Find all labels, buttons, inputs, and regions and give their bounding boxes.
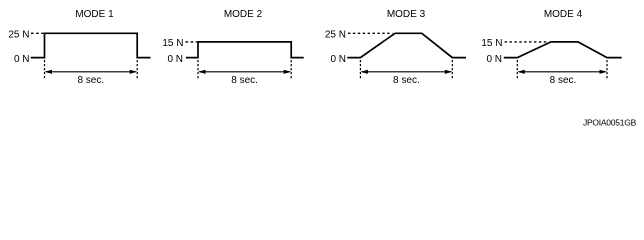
extension dashed line left (mode 3) xyxy=(359,60,361,78)
svg-text:8 sec.: 8 sec. xyxy=(231,75,258,86)
svg-text:0 N: 0 N xyxy=(14,54,30,65)
svg-text:15 N: 15 N xyxy=(481,38,502,49)
extension dashed line left (mode 4) xyxy=(516,60,518,78)
svg-text:25 N: 25 N xyxy=(325,29,346,40)
dimension line 8 sec (mode 3) xyxy=(362,71,451,73)
svg-text:8 sec.: 8 sec. xyxy=(550,75,577,86)
extension dashed line right (mode 2) xyxy=(290,60,292,78)
svg-text:JPOIA0051GB: JPOIA0051GB xyxy=(583,118,637,128)
svg-text:8 sec.: 8 sec. xyxy=(77,75,104,86)
dimension line 8 sec (mode 2) xyxy=(200,71,290,73)
leader dashes 15 N (mode 2) xyxy=(186,41,198,43)
svg-text:0 N: 0 N xyxy=(330,54,346,65)
extension dashed line right (mode 4) xyxy=(606,60,608,78)
svg-text:8 sec.: 8 sec. xyxy=(393,75,420,86)
extension dashed line left (mode 2) xyxy=(197,60,199,78)
extension dashed line right (mode 1) xyxy=(136,60,138,78)
svg-text:MODE 4: MODE 4 xyxy=(544,9,583,20)
waveform mode 4 trapezoid xyxy=(504,42,622,58)
dimension line 8 sec (mode 4) xyxy=(519,71,606,73)
extension dashed line left (mode 1) xyxy=(44,60,46,78)
dimension line 8 sec (mode 1) xyxy=(46,71,136,73)
svg-text:0 N: 0 N xyxy=(486,54,502,65)
leader dashes 25 N (mode 1) xyxy=(31,32,44,34)
svg-text:MODE 2: MODE 2 xyxy=(224,9,263,20)
leader dashed line 25 N (mode 3) xyxy=(348,32,393,34)
svg-text:15 N: 15 N xyxy=(162,38,183,49)
svg-text:MODE 1: MODE 1 xyxy=(75,9,114,20)
svg-text:25 N: 25 N xyxy=(8,29,29,40)
svg-text:MODE 3: MODE 3 xyxy=(387,9,426,20)
extension dashed line right (mode 3) xyxy=(451,60,453,78)
svg-text:0 N: 0 N xyxy=(167,54,183,65)
waveform mode 3 trapezoid xyxy=(347,33,466,57)
waveform mode 1 square pulse xyxy=(31,33,151,57)
leader dashed line 15 N (mode 4) xyxy=(505,41,548,43)
waveform mode 2 square pulse xyxy=(186,42,304,58)
